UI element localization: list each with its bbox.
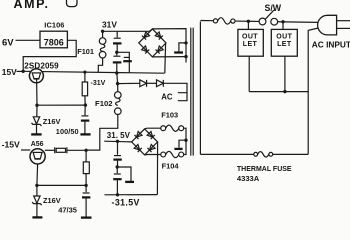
transformer T1 primary xyxy=(199,22,201,155)
node bottom row xyxy=(84,184,87,187)
fuse AC xyxy=(213,18,235,24)
fuse F103 xyxy=(145,125,186,140)
wire diode out xyxy=(163,83,187,93)
zener D4 Z16V xyxy=(32,185,42,217)
wire Q2 collector row xyxy=(45,149,55,151)
diode D2 row xyxy=(118,82,140,84)
wire tap upper ground branch xyxy=(179,43,186,52)
wire rail up to F104 row xyxy=(156,142,158,195)
wire to ground branch xyxy=(117,167,131,181)
connector top xyxy=(67,0,78,7)
wire -31.5V rail xyxy=(105,194,158,196)
node diode row xyxy=(116,82,119,85)
svg-text:Z16V: Z16V xyxy=(43,196,61,205)
svg-text:100/50: 100/50 xyxy=(56,127,79,136)
svg-text:4333A: 4333A xyxy=(237,174,260,183)
ground xyxy=(125,181,134,183)
node row right xyxy=(84,103,87,106)
wire emitter row xyxy=(37,104,85,106)
capacitor C5 xyxy=(113,141,121,167)
transistor Q2 A56 xyxy=(30,149,45,164)
svg-text:A56: A56 xyxy=(31,141,44,148)
bridge rectifier BR2 xyxy=(132,129,158,155)
resistor FR1 fusible xyxy=(55,147,86,153)
svg-text:AC: AC xyxy=(161,93,173,102)
capacitor C3 xyxy=(123,57,132,61)
wire sec bottom ground branch xyxy=(179,140,186,148)
transistor Q1 2SD2059 xyxy=(29,69,43,83)
fuse F102 xyxy=(86,84,121,151)
wire Q2 emitter row xyxy=(37,184,86,186)
wire 15V xyxy=(17,70,24,72)
wire rail up to bridge1 xyxy=(164,44,167,74)
svg-text:LET: LET xyxy=(277,41,292,48)
svg-text:2SD2059: 2SD2059 xyxy=(24,62,59,71)
node Q2 row xyxy=(84,149,87,152)
svg-text:6V: 6V xyxy=(2,37,14,48)
diode D3 xyxy=(147,82,157,84)
wire bridge1 bottom tap xyxy=(152,56,186,58)
wire 7806 input loop xyxy=(23,40,76,71)
svg-text:LET: LET xyxy=(243,41,258,48)
svg-text:F104: F104 xyxy=(162,162,180,171)
node Q1 emitter xyxy=(35,104,38,107)
node outlet2 xyxy=(281,20,284,23)
svg-text:-31.5V: -31.5V xyxy=(112,198,140,208)
wire AC return rail xyxy=(200,153,308,155)
connector AC out xyxy=(178,93,187,101)
ground xyxy=(31,133,41,135)
node tap upper xyxy=(184,41,187,44)
capacitor C6 xyxy=(113,167,121,195)
outlet box 1 xyxy=(238,21,263,56)
node base xyxy=(22,70,25,73)
svg-text:15V: 15V xyxy=(2,67,17,77)
wire 31V rail xyxy=(103,29,153,31)
resistor R2 xyxy=(83,150,89,185)
wire Q1 emitter xyxy=(36,79,38,105)
svg-text:AC INPUT: AC INPUT xyxy=(312,40,350,50)
resistor R1 xyxy=(82,71,87,106)
node emitter2 xyxy=(35,184,38,187)
node tap lower xyxy=(184,55,187,58)
outlet box 2 xyxy=(271,22,297,56)
capacitor C2 xyxy=(113,52,122,73)
svg-text:OUT: OUT xyxy=(276,33,292,40)
wire Q2 base xyxy=(21,149,30,151)
node C5 C6 xyxy=(116,165,119,168)
svg-text:-15V: -15V xyxy=(2,140,20,150)
fuse F101 xyxy=(98,30,106,73)
svg-text:47/35: 47/35 xyxy=(58,205,77,214)
svg-text:IC106: IC106 xyxy=(44,21,64,30)
fuse F104 xyxy=(145,140,186,157)
svg-text:OUT: OUT xyxy=(242,33,258,40)
wire return row xyxy=(249,91,308,93)
ground xyxy=(80,133,90,135)
wire 6V input xyxy=(16,39,41,41)
node 31.5V xyxy=(116,140,119,143)
ground xyxy=(32,216,42,218)
transformer T1 core xyxy=(190,28,192,156)
wire AC neutral xyxy=(308,28,318,154)
wire base rail xyxy=(23,71,164,73)
svg-text:31. 5V: 31. 5V xyxy=(107,131,131,140)
transformer T1 secondary xyxy=(152,29,186,63)
ground xyxy=(174,51,183,53)
node outlet return xyxy=(283,90,286,93)
capacitor 100/50 xyxy=(81,105,89,134)
wire 31.5V row xyxy=(104,140,131,143)
svg-text:-31V: -31V xyxy=(91,80,106,87)
svg-text:Z16V: Z16V xyxy=(43,117,61,126)
wire branch to C3 xyxy=(117,52,130,73)
node transformer sec bottom xyxy=(184,139,187,142)
wire outlet2 return xyxy=(284,56,286,91)
svg-text:F102: F102 xyxy=(95,99,113,108)
svg-text:THERMAL FUSE: THERMAL FUSE xyxy=(237,166,292,173)
svg-text:F103: F103 xyxy=(161,110,178,119)
zener D1 Z16V xyxy=(32,105,42,134)
node -31.5V xyxy=(116,193,119,196)
node rail cap xyxy=(115,71,118,74)
svg-text:S/W: S/W xyxy=(265,3,282,13)
node C1 C2 xyxy=(115,51,118,54)
switch S/W xyxy=(259,10,278,25)
svg-text:AMP.: AMP. xyxy=(14,0,50,11)
node outlet1 xyxy=(247,20,250,23)
svg-text:31V: 31V xyxy=(102,20,117,30)
svg-text:F101: F101 xyxy=(77,47,94,56)
thermal fuse xyxy=(254,152,273,157)
plug AC input xyxy=(318,15,350,35)
ground xyxy=(81,216,92,218)
bridge rectifier BR1 xyxy=(139,29,166,57)
regulator U1 box xyxy=(40,31,67,48)
ground xyxy=(174,148,182,150)
wire outlet1 return xyxy=(248,56,250,91)
svg-text:7806: 7806 xyxy=(44,38,64,48)
wire AC live rail xyxy=(200,21,318,23)
capacitor C1 xyxy=(113,31,122,51)
capacitor 47/35 xyxy=(82,185,90,217)
wire rail to diode row xyxy=(116,73,119,84)
wire Q2 emitter xyxy=(36,164,39,185)
